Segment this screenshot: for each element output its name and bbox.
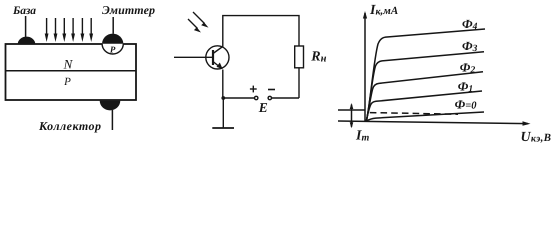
svg-text:Коллектор: Коллектор [38,119,101,133]
svg-text:E: E [258,100,268,115]
svg-text:Ф=0: Ф=0 [455,97,478,111]
svg-text:База: База [12,5,36,17]
svg-text:N: N [63,57,74,72]
svg-text:P: P [63,76,71,88]
svg-text:Iк,мА: Iк,мА [369,3,398,18]
svg-text:P: P [110,45,116,55]
svg-text:Эмиттер: Эмиттер [102,3,155,17]
